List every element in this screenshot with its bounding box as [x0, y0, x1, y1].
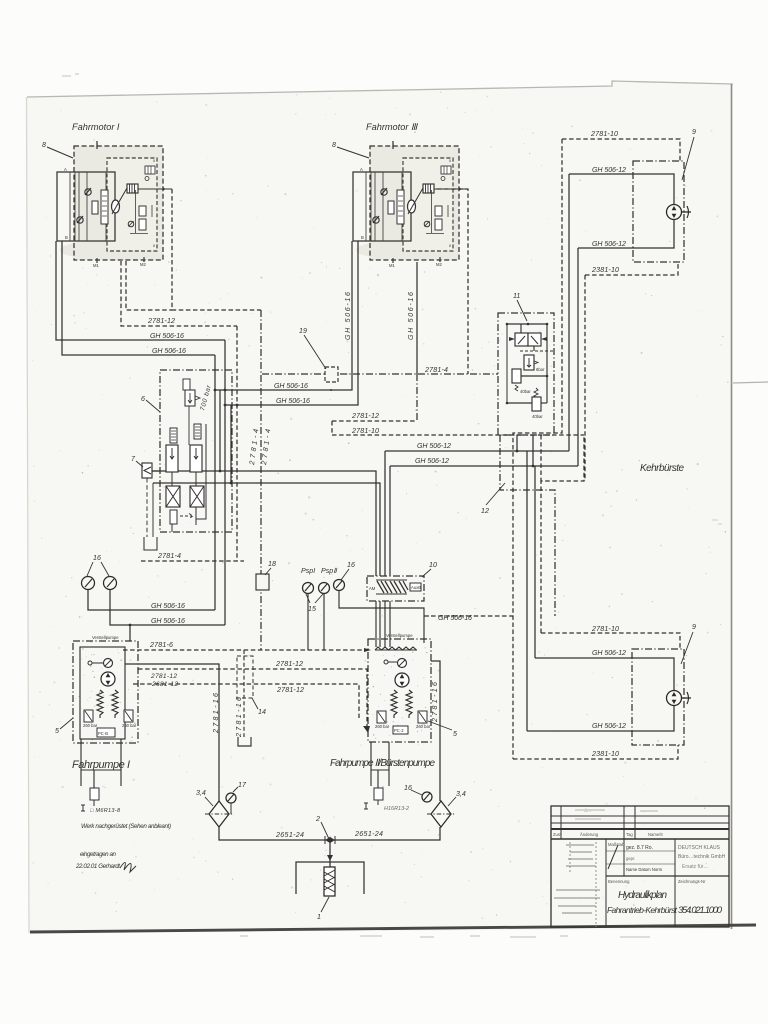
svg-text:Name/It: Name/It — [648, 832, 663, 837]
wire 2781-12 dashed y326 from motor I — [121, 261, 237, 326]
svg-text:gepr.: gepr. — [626, 856, 635, 861]
pump1 springs — [97, 690, 103, 718]
wire x390 down to comp10 — [389, 466, 391, 576]
left compartment scribbles — [554, 810, 658, 927]
motor 9 top symbol — [667, 205, 682, 220]
wire GH506-12 y174 — [569, 174, 674, 205]
wire 2781-12 y669 — [138, 669, 367, 728]
svg-text:Fahrmotor I: Fahrmotor I — [72, 122, 120, 132]
svg-text:GH 506-16: GH 506-16 — [276, 397, 310, 405]
comp11 top bus — [507, 323, 547, 325]
svg-text:GH 506-16: GH 506-16 — [151, 617, 185, 625]
svg-text:2781-12: 2781-12 — [147, 317, 175, 325]
wire psp gauge drops — [307, 593, 309, 650]
svg-text:2781-6: 2781-6 — [149, 641, 173, 649]
svg-text:H16R13-2: H16R13-2 — [384, 806, 409, 812]
wire motor III flush x468 dashed — [437, 189, 468, 374]
svg-text:16: 16 — [93, 554, 101, 562]
wire dashed y310 from motor I flush — [172, 189, 261, 310]
wire 2381-10 dashed y759 — [513, 745, 678, 759]
wire x578 down — [577, 248, 579, 466]
svg-text:GH 506-16: GH 506-16 — [152, 347, 186, 355]
diamond check 3,4 right — [431, 801, 451, 827]
filter element hatched — [324, 867, 335, 896]
paper left edge — [27, 97, 30, 933]
wire GH506-16 y405 to motor III — [225, 241, 358, 405]
wire x126 from motor I to y310 — [126, 261, 172, 310]
wire dashed vertical x237 to 2781-4 — [236, 326, 238, 561]
svg-text:2381-10: 2381-10 — [591, 750, 619, 758]
svg-text:PspⅡ: PspⅡ — [321, 567, 338, 575]
comp11 dashed pilot line — [520, 350, 553, 352]
wire 2781-10 dashed bottom y275 — [585, 262, 678, 275]
svg-text:GH 506-16: GH 506-16 — [274, 382, 308, 390]
svg-text:Fahrmotor Ⅲ: Fahrmotor Ⅲ — [366, 122, 419, 132]
svg-text:2781-4: 2781-4 — [157, 552, 181, 560]
wire 2781-6 dashed y616 — [424, 615, 513, 617]
svg-text:Änderung: Änderung — [580, 832, 599, 837]
pump2 bottom control box — [393, 726, 408, 734]
paper right edge — [731, 84, 733, 929]
svg-text:16: 16 — [347, 561, 355, 569]
gauge 16 bottom — [422, 792, 432, 802]
wire x541 dashed up — [541, 435, 584, 633]
svg-text:1: 1 — [317, 913, 321, 921]
pump1 relief left — [84, 710, 93, 722]
pump1 main circle — [101, 672, 115, 686]
wire 2781-10 dashed top loop — [562, 139, 680, 161]
wire GH506-16 y355 from motor I — [62, 241, 215, 355]
wire 7 drain to tank — [146, 478, 148, 537]
block6 valve stack right — [194, 424, 201, 439]
motor 9 top dash-dot box — [633, 161, 684, 262]
svg-text:10: 10 — [429, 561, 437, 569]
svg-text:2651-24: 2651-24 — [354, 830, 383, 838]
block6 dash-dot box — [160, 370, 232, 532]
svg-text:260 bar: 260 bar — [375, 724, 390, 729]
wire pump I feed vertical — [129, 625, 131, 641]
svg-text:8: 8 — [332, 141, 336, 149]
comp11 directional valve — [515, 333, 528, 346]
component 14 plug line — [243, 650, 245, 737]
svg-text:GH 506-12: GH 506-12 — [592, 166, 626, 174]
svg-text:GH 506-16: GH 506-16 — [151, 602, 185, 610]
svg-text:14: 14 — [258, 708, 266, 716]
wire x541 dashed top stub — [540, 435, 542, 481]
motor 9 bottom dash-dot box — [632, 649, 684, 745]
wire 2781-10 dashed y435 — [332, 434, 584, 436]
svg-text:18: 18 — [268, 560, 276, 568]
gauge 16 mid — [334, 580, 345, 591]
gauge left A — [82, 577, 95, 590]
svg-text:Ersatz für…: Ersatz für… — [682, 864, 708, 870]
svg-text:40bar: 40bar — [532, 414, 543, 419]
svg-text:GH 506-12: GH 506-12 — [592, 722, 626, 730]
wire x569 down — [568, 174, 570, 451]
svg-text:Verstellpumpe: Verstellpumpe — [92, 635, 119, 640]
wire GH506-12 y466 — [390, 465, 578, 467]
block6 valve stack left — [170, 428, 177, 443]
svg-text:GH 506-16: GH 506-16 — [438, 614, 472, 622]
wire dash-dot x261 down through 18 — [260, 310, 262, 650]
svg-text:DEUTSCH KLAUS: DEUTSCH KLAUS — [678, 845, 721, 851]
svg-text:□ M6R13-8: □ M6R13-8 — [90, 808, 121, 814]
wire 2781-12 dashed y421 — [332, 420, 415, 422]
pump2 relief right — [418, 711, 427, 723]
wire 2781-6 dashed y650 — [123, 649, 370, 651]
pump2 springs — [391, 690, 397, 718]
tank outline — [296, 862, 364, 894]
svg-text:Werk nachgerüstet (Sehen anble: Werk nachgerüstet (Sehen anbleant) — [81, 823, 171, 830]
svg-text:3,4: 3,4 — [456, 790, 466, 798]
pump1 inner box — [80, 647, 125, 739]
wire gauge16 drop and run — [339, 590, 424, 643]
motor 9 bottom symbol — [667, 691, 682, 706]
pump1 dash-dot box — [73, 641, 138, 743]
comp11 valve left — [512, 369, 521, 383]
comp11 outputs down — [516, 435, 518, 451]
svg-text:Fahrantrieb-Kehrbürst: Fahrantrieb-Kehrbürst — [607, 905, 678, 915]
svg-text:Kehrbürste: Kehrbürste — [640, 463, 684, 474]
svg-text:2781-12: 2781-12 — [351, 412, 379, 420]
svg-text:2381-10: 2381-10 — [591, 266, 619, 274]
pump1 drain circuit — [80, 739, 82, 786]
pump2 dash-dot box — [368, 639, 431, 742]
svg-text:8: 8 — [42, 141, 46, 149]
node 19 junction box — [325, 367, 338, 382]
pump2 relief left — [377, 711, 386, 723]
svg-text:5: 5 — [55, 727, 59, 735]
svg-text:6bar: 6bar — [536, 367, 545, 372]
svg-text:19: 19 — [299, 327, 307, 335]
wire 2781-4 dash-dot y374 — [262, 373, 498, 375]
svg-text:Benennung: Benennung — [608, 879, 630, 884]
svg-text:12: 12 — [481, 507, 489, 515]
svg-text:PC·B: PC·B — [98, 731, 108, 736]
svg-text:354.021.1000: 354.021.1000 — [678, 905, 723, 916]
svg-text:PC·2: PC·2 — [394, 728, 404, 733]
valve 7 — [142, 463, 152, 478]
pump1 bottom control box — [97, 728, 115, 737]
wire 2781-10 dashed y633 — [541, 633, 680, 649]
svg-text:6: 6 — [141, 395, 145, 403]
pump2 servo circle — [398, 659, 407, 668]
svg-text:17: 17 — [238, 781, 247, 789]
wire gauge line GH506-16 y625 — [110, 589, 225, 625]
svg-text:Hydraulikplan: Hydraulikplan — [618, 890, 667, 901]
svg-text:Tag: Tag — [626, 832, 633, 837]
pump1 relief right — [124, 710, 133, 722]
svg-text:Büro…technik GmbH: Büro…technik GmbH — [678, 854, 726, 860]
wire 2781-4 dashed bottom y561 — [141, 560, 244, 562]
comp11 valve bottom right — [532, 397, 541, 411]
paper bottom dark edge — [30, 925, 756, 932]
node 18 plug — [256, 574, 269, 590]
svg-text:3,4: 3,4 — [196, 789, 206, 797]
pump2 main circle — [395, 673, 409, 687]
svg-text:260 bar: 260 bar — [416, 724, 431, 729]
svg-text:GH 506-12: GH 506-12 — [592, 240, 626, 248]
wire vertical x217 down to gauge line — [214, 355, 216, 610]
gauge left B — [104, 577, 117, 590]
comp11 dash-dot box — [498, 313, 554, 435]
svg-text:Zust: Zust — [553, 832, 562, 837]
tank symbol block6 — [144, 537, 157, 550]
svg-text:Fahrpumpe Ⅱ/Bürstenpumpe: Fahrpumpe Ⅱ/Bürstenpumpe — [330, 758, 435, 769]
paper top edge — [27, 81, 733, 97]
wire GH506-12 y733 — [527, 706, 674, 731]
wire x585 dashed down — [584, 275, 586, 481]
block6 relief valve top — [185, 390, 195, 406]
svg-text:2681-12: 2681-12 — [151, 681, 178, 688]
svg-text:2781-10: 2781-10 — [591, 625, 619, 633]
pump2 output right — [431, 661, 440, 801]
svg-text:9: 9 — [692, 623, 696, 631]
pump1 servo circle — [104, 659, 113, 668]
svg-text:PspI: PspI — [301, 567, 315, 575]
svg-text:2781-12: 2781-12 — [276, 686, 304, 694]
wire 2781-12 y684 — [133, 684, 359, 718]
wire vertical x224 down to gauge line — [224, 340, 226, 625]
svg-text:260 bar: 260 bar — [122, 723, 137, 728]
pump2 drain circuit — [370, 742, 372, 786]
fold mark right — [733, 382, 768, 383]
wire GH506-12 y658 — [535, 658, 674, 690]
svg-text:GH 506-12: GH 506-12 — [592, 649, 626, 657]
diamond check 3,4 left — [209, 801, 229, 827]
wire y664 solid to 2781-16 drop — [125, 664, 219, 801]
wire gauge line GH506-16 y610 — [88, 589, 215, 610]
filter 1 drop — [329, 840, 331, 867]
svg-text:11: 11 — [513, 292, 520, 300]
svg-text:2781-12: 2781-12 — [150, 673, 177, 680]
wire x385 down to comp10 — [384, 451, 386, 576]
wire GH506-16 y340 from motor I — [56, 241, 225, 340]
svg-text:gez. 8.7 Ro.: gez. 8.7 Ro. — [626, 845, 653, 851]
svg-text:22.02.01 Gerhardt: 22.02.01 Gerhardt — [75, 863, 120, 870]
svg-text:2781-4: 2781-4 — [424, 366, 448, 374]
svg-text:9: 9 — [692, 128, 696, 136]
gauge 17 — [226, 793, 236, 803]
svg-text:16: 16 — [404, 784, 412, 792]
fahrmotor unit 8 (III) — [353, 141, 468, 268]
suction line 2651-24 — [219, 827, 440, 840]
svg-text:Name Datum Norm: Name Datum Norm — [626, 867, 663, 872]
svg-text:Maßstab: Maßstab — [608, 842, 625, 847]
wire GH506-16 y471 from block6 — [151, 471, 376, 576]
wire GH506-16 y483 from block6 — [153, 483, 380, 576]
svg-text:2781-10: 2781-10 — [351, 427, 379, 435]
svg-text:GH 506-16: GH 506-16 — [150, 332, 184, 340]
svg-text:eingetragen an: eingetragen an — [80, 851, 117, 858]
wire vertical x332 — [331, 421, 333, 435]
wires comp10 to pump II — [375, 601, 377, 647]
svg-text:5: 5 — [453, 730, 457, 738]
comp11 pressure reducer — [524, 355, 534, 370]
wire GH506-12 y451 — [385, 450, 569, 452]
wire motor III x417 down — [416, 262, 418, 374]
gauge PspI — [303, 583, 314, 594]
gauge PspII — [319, 583, 330, 594]
svg-text:2781-10: 2781-10 — [590, 130, 618, 138]
svg-text:260 bar: 260 bar — [83, 723, 98, 728]
paper area — [27, 81, 733, 933]
svg-text:AM: AM — [369, 586, 376, 591]
junction 2 arrows — [325, 836, 335, 844]
svg-text:GH 506-16: GH 506-16 — [344, 292, 352, 340]
svg-text:2781-12: 2781-12 — [275, 660, 303, 668]
svg-text:AuxB: AuxB — [411, 585, 421, 590]
svg-text:2651-24: 2651-24 — [275, 831, 304, 839]
svg-text:GH 506-12: GH 506-12 — [417, 442, 451, 450]
svg-text:GH 506-12: GH 506-12 — [415, 457, 449, 465]
junction dots — [214, 389, 217, 392]
svg-text:2: 2 — [315, 815, 320, 823]
wire x527 up — [526, 451, 528, 731]
wire x535 up — [534, 466, 536, 658]
wire GH506-16 y390 to motor III — [215, 241, 352, 390]
svg-text:Zeichnungs-Nr: Zeichnungs-Nr — [678, 879, 706, 884]
pump2 top coil — [375, 647, 417, 650]
svg-text:GH 506-16: GH 506-16 — [407, 292, 415, 340]
svg-text:40bar: 40bar — [520, 389, 531, 394]
svg-text:15: 15 — [308, 605, 316, 613]
wire x562 dashed down — [513, 139, 562, 759]
wire GH506-12 y248 — [578, 219, 674, 248]
fahrmotor unit 8 (I) — [57, 141, 172, 268]
svg-text:Verstellpumpe: Verstellpumpe — [386, 633, 413, 638]
